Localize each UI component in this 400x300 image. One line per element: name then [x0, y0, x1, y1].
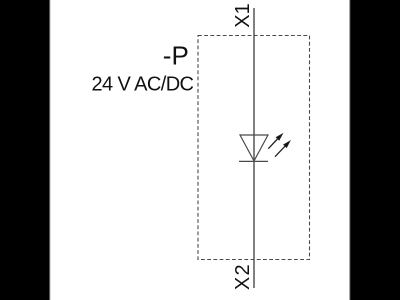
svg-text:24 V AC/DC: 24 V AC/DC: [92, 74, 195, 96]
wire (vertical conductor X1 to X2): [253, 8, 255, 288]
LED emission arrow 2: [275, 141, 290, 156]
right letterbox bar: [348, 0, 400, 300]
svg-text:X2: X2: [232, 263, 254, 290]
LED D1 triangle (anode): [240, 135, 268, 161]
left letterbox bar: [0, 0, 52, 300]
LED D1 cathode bar: [239, 160, 268, 162]
svg-text:-P: -P: [163, 40, 189, 70]
enclosure (dashed component outline): [198, 36, 310, 260]
svg-text:X1: X1: [232, 3, 254, 27]
LED emission arrow 1: [268, 134, 282, 149]
